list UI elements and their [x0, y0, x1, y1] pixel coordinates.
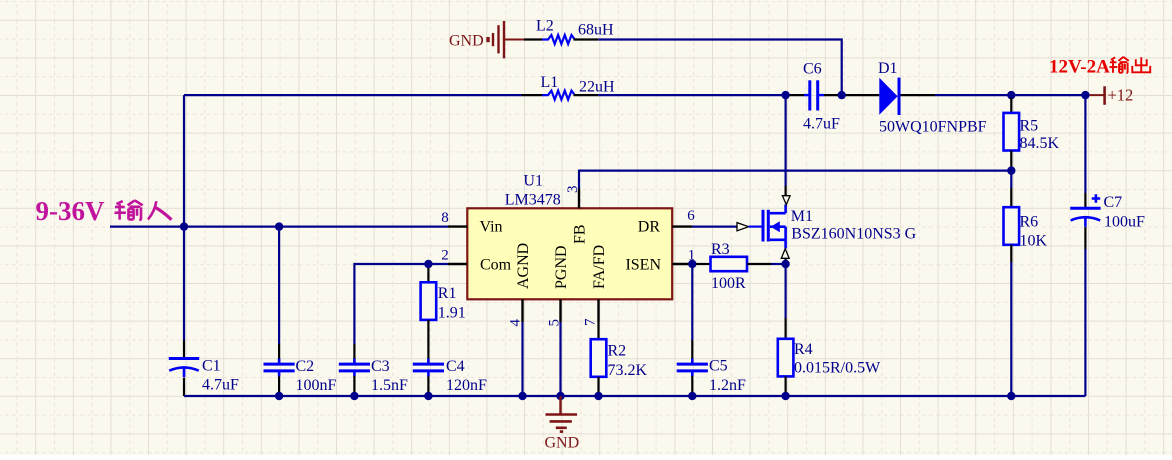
- capacitor C6 4.7uF: [786, 61, 842, 133]
- svg-text:C6: C6: [803, 61, 822, 78]
- power port +12: [1085, 86, 1133, 105]
- wire: input to L1: [184, 94, 522, 96]
- svg-text:C7: C7: [1104, 194, 1123, 211]
- svg-text:100uF: 100uF: [1104, 214, 1145, 231]
- svg-text:1.91: 1.91: [438, 304, 466, 321]
- resistor R5 84.5K: [1004, 95, 1060, 171]
- arrow: source marker: [781, 249, 789, 258]
- wire: DR to gate: [692, 226, 737, 228]
- net label 12V-2A output title: [1049, 57, 1150, 78]
- svg-text:22uH: 22uH: [579, 79, 615, 96]
- wire: R3 to source node: [771, 263, 786, 265]
- resistor R2 73.2K: [591, 322, 648, 396]
- wire: input left rail: [183, 95, 185, 358]
- capacitor C4 120nF: [413, 358, 487, 394]
- svg-text:GND: GND: [545, 435, 580, 452]
- pin 4 AGND: [508, 243, 533, 327]
- svg-text:PGND: PGND: [553, 245, 570, 289]
- node: bus junction at pin4: [518, 392, 526, 400]
- capacitor C3 1.5nF: [339, 358, 408, 396]
- capacitor C2 100nF: [264, 358, 337, 394]
- svg-text:D1: D1: [878, 60, 898, 77]
- node: bus junction at R6: [1007, 392, 1015, 400]
- wire: source to ISEN: [784, 258, 786, 264]
- svg-text:AGND: AGND: [515, 243, 532, 289]
- svg-text:12V-2A: 12V-2A: [1049, 57, 1110, 78]
- svg-text:1.2nF: 1.2nF: [709, 377, 746, 394]
- svg-text:FA/FD: FA/FD: [591, 245, 608, 289]
- svg-text:50WQ10FNPBF: 50WQ10FNPBF: [879, 119, 987, 136]
- inductor L2 68uH: [524, 18, 614, 45]
- wire: C3 lower: [353, 344, 355, 364]
- node: FB divider junction: [1007, 166, 1015, 174]
- node: switching node junction: [781, 91, 789, 99]
- svg-text:4.7uF: 4.7uF: [803, 115, 840, 132]
- resistor R1 1.91: [421, 264, 466, 364]
- node: bus junction at C2: [275, 392, 283, 400]
- svg-text:100R: 100R: [711, 275, 746, 292]
- resistor R3 100R: [696, 241, 771, 292]
- node: bus junction at C4: [424, 392, 432, 400]
- svg-text:R4: R4: [794, 341, 813, 358]
- svg-text:ISEN: ISEN: [625, 257, 661, 274]
- pin 8 Vin: [441, 210, 502, 236]
- capacitor C5 1.2nF: [677, 264, 746, 396]
- wire: ground bus: [184, 395, 1085, 397]
- pin 6 DR: [638, 208, 695, 236]
- wire: AGND to bus: [521, 322, 523, 396]
- ground GND (bottom): [545, 396, 580, 452]
- wire: R6 to bus: [1010, 262, 1012, 396]
- svg-text:68uH: 68uH: [578, 22, 614, 39]
- node: bus junction at R4: [781, 392, 789, 400]
- transistor M1 BSZ160N10NS3 G: [749, 205, 917, 249]
- svg-text:0.015R/0.5W: 0.015R/0.5W: [794, 360, 881, 377]
- node: output/C7 junction: [1081, 91, 1089, 99]
- svg-text:C5: C5: [709, 358, 728, 375]
- svg-text:GND: GND: [449, 33, 484, 50]
- wire: FB feedback net: [579, 171, 1011, 189]
- wire: R5 to FB node: [1010, 171, 1012, 188]
- ground GND (top left power port): [449, 21, 524, 58]
- wire: PGND to bus: [559, 322, 561, 396]
- svg-text:BSZ160N10NS3 G: BSZ160N10NS3 G: [791, 226, 916, 243]
- svg-text:84.5K: 84.5K: [1020, 135, 1060, 152]
- svg-text:1.5nF: 1.5nF: [371, 377, 408, 394]
- svg-text:R1: R1: [438, 285, 457, 302]
- svg-text:Vin: Vin: [480, 219, 503, 236]
- svg-text:120nF: 120nF: [446, 377, 487, 394]
- svg-text:DR: DR: [638, 219, 661, 236]
- resistor R6 10K: [1004, 188, 1048, 262]
- pin 2 Com: [441, 248, 511, 274]
- wire: C2 branch: [278, 227, 280, 396]
- svg-text:L1: L1: [541, 74, 559, 91]
- node: bus junction at GND tap: [556, 392, 564, 400]
- svg-text:C1: C1: [202, 358, 221, 375]
- capacitor C7 100uF (polarized): [1070, 95, 1145, 396]
- pin 7 FA/FD: [583, 245, 609, 326]
- arrow: drain marker: [782, 196, 790, 205]
- node: input/C2 junction: [275, 222, 283, 230]
- node: bus junction at R2: [594, 392, 602, 400]
- capacitor C1 4.7uF (polarized): [169, 358, 239, 397]
- pin 3 FB: [565, 186, 589, 245]
- svg-text:R3: R3: [711, 241, 730, 258]
- node: bus junction at C5: [688, 392, 696, 400]
- svg-text:7: 7: [583, 318, 599, 326]
- svg-text:2: 2: [441, 248, 449, 264]
- svg-text:6: 6: [687, 208, 695, 224]
- svg-text:M1: M1: [791, 208, 813, 225]
- node: input/left-rail junction: [180, 222, 188, 230]
- wire: drain to switching node: [784, 95, 786, 196]
- node: output/R5 junction: [1007, 91, 1015, 99]
- wire: Com rail to C3: [354, 264, 448, 344]
- node: source/R4 junction: [781, 260, 789, 268]
- wire: input rail 9-36V: [110, 226, 448, 228]
- svg-text:U1: U1: [523, 172, 543, 189]
- svg-text:R6: R6: [1020, 214, 1039, 231]
- svg-text:R2: R2: [608, 343, 627, 360]
- svg-text:FB: FB: [572, 224, 589, 244]
- svg-text:10K: 10K: [1020, 233, 1048, 250]
- svg-text:C4: C4: [446, 358, 465, 375]
- wire: L1 to C6: [598, 94, 785, 96]
- svg-text:73.2K: 73.2K: [608, 362, 648, 379]
- svg-text:R5: R5: [1020, 118, 1039, 135]
- pin 5 PGND: [547, 245, 571, 326]
- svg-text:LM3478: LM3478: [505, 192, 561, 209]
- svg-text:C3: C3: [371, 358, 390, 375]
- pin 1 ISEN: [625, 248, 695, 274]
- svg-text:L2: L2: [536, 18, 554, 35]
- wire: C4 lower: [427, 376, 429, 396]
- svg-text:100nF: 100nF: [296, 377, 337, 394]
- svg-text:4: 4: [508, 319, 524, 327]
- wire: D1 cathode to output: [935, 94, 1085, 96]
- svg-text:C2: C2: [296, 358, 315, 375]
- IC U1 LM3478: [467, 172, 672, 299]
- wire: L2 output to switching node: [598, 40, 841, 96]
- inductor L1 22uH: [522, 74, 616, 100]
- svg-text:9-36V: 9-36V: [36, 196, 105, 226]
- svg-text:Com: Com: [480, 257, 512, 274]
- node: L2 down junction: [838, 91, 846, 99]
- svg-text:+12: +12: [1108, 86, 1134, 105]
- svg-text:8: 8: [441, 210, 449, 226]
- resistor R4 0.015R/0.5W: [778, 264, 881, 396]
- wire: ISEN to R3: [692, 263, 696, 265]
- diode D1 50WQ10FNPBF: [842, 60, 987, 136]
- node: Com/R1 junction: [424, 260, 432, 268]
- node: bus junction at C3: [350, 392, 358, 400]
- svg-text:4.7uF: 4.7uF: [202, 377, 239, 394]
- arrow: gate signal direction: [737, 223, 749, 231]
- net label 9-36V input title: [36, 196, 172, 226]
- node: ISEN/C5 junction: [688, 260, 696, 268]
